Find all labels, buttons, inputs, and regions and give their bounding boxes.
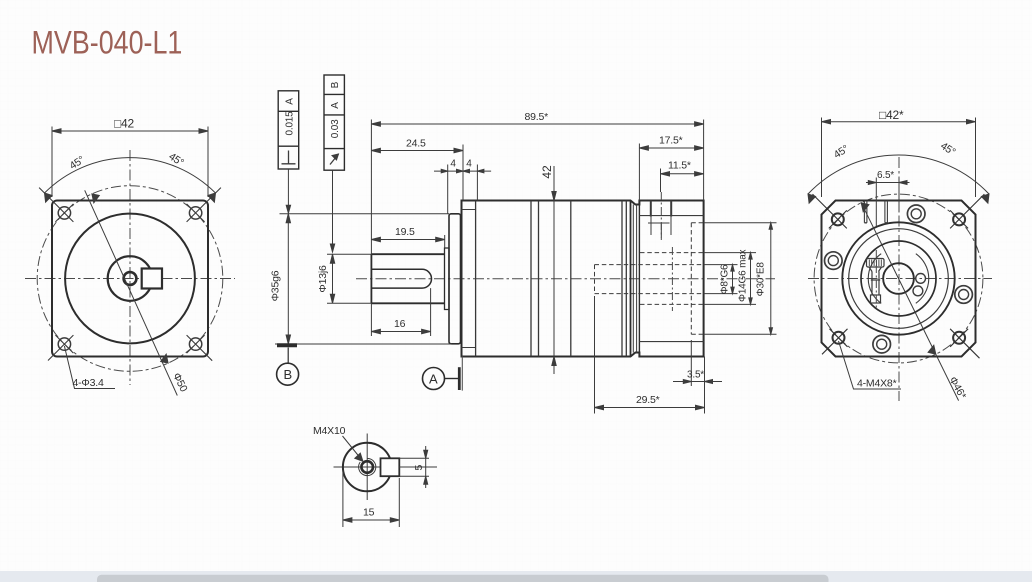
svg-text:□42: □42	[114, 117, 135, 131]
svg-text:16: 16	[394, 318, 406, 330]
tapped hole M4 section top	[648, 201, 671, 238]
small hole 2	[913, 286, 923, 296]
dim phi35g6	[275, 214, 452, 344]
front plate corner steps	[462, 210, 476, 348]
svg-text:Φ14G6 max: Φ14G6 max	[738, 249, 749, 302]
svg-text:B: B	[284, 367, 293, 382]
hole BR	[187, 335, 213, 361]
small hole 1	[916, 274, 926, 284]
hole TR	[187, 188, 221, 222]
housing body outline	[462, 201, 704, 357]
centerline horizontal	[25, 278, 235, 280]
svg-text:□42*: □42*	[879, 108, 904, 122]
angular dim arc 45deg	[45, 158, 216, 202]
key square	[142, 269, 162, 289]
svg-text:42: 42	[540, 165, 554, 179]
dimension square42	[52, 127, 208, 198]
dim 6.5	[866, 178, 910, 227]
shaft circle phi13	[108, 256, 153, 301]
clamp slot top	[864, 201, 887, 223]
svg-text:6.5*: 6.5*	[877, 170, 894, 181]
datum A	[423, 357, 463, 391]
svg-text:4-Φ3.4: 4-Φ3.4	[73, 377, 104, 389]
svg-text:Φ13j6: Φ13j6	[317, 265, 329, 293]
screw hole BL	[822, 329, 848, 355]
dim 15	[343, 470, 399, 527]
angular dim arc 45deg	[808, 155, 989, 203]
inner circle	[849, 229, 949, 329]
hole BL	[48, 335, 73, 360]
svg-text:11.5*: 11.5*	[668, 160, 691, 172]
thread arc	[359, 458, 376, 475]
motor hole left	[825, 252, 843, 270]
screw hole BR	[950, 329, 979, 358]
svg-text:A: A	[285, 98, 296, 105]
scrollbar track	[0, 571, 1032, 582]
neck joint lines	[633, 205, 636, 353]
dim 11.5	[661, 169, 704, 193]
datum B	[277, 345, 299, 385]
hole TL	[39, 188, 73, 222]
bolt circle phi50 dash-dot	[37, 186, 223, 372]
svg-text:4: 4	[450, 159, 456, 170]
coupling circle	[861, 241, 936, 316]
hub arcs	[868, 254, 929, 304]
tap hole M4	[361, 461, 373, 473]
hidden bore phi14	[640, 253, 704, 305]
square flange 42	[52, 201, 208, 357]
centerline horizontal	[808, 278, 992, 280]
pilot boss phi35	[449, 214, 461, 344]
dim phi8 G6	[704, 265, 738, 294]
body internal vertical lines	[476, 201, 627, 357]
hidden bore phi30	[691, 223, 703, 335]
dim phi30 E8	[704, 223, 777, 335]
label 4-phi3.4 leader	[64, 346, 115, 389]
pilot circle phi35	[65, 214, 195, 344]
shaft bore phi8	[883, 263, 914, 294]
svg-text:29.5*: 29.5*	[636, 394, 660, 406]
clamp screw detail	[867, 259, 885, 304]
screw hole TR	[950, 194, 984, 228]
dim 24.5	[371, 145, 463, 201]
label phi50 leader	[85, 190, 178, 395]
dim 5	[399, 446, 437, 488]
square flange chamfered	[822, 201, 976, 357]
centerline vertical	[898, 157, 900, 401]
tapped hole centerline	[660, 192, 662, 240]
shaft shoulder	[445, 248, 450, 310]
bolt circle phi46 dash-dot	[814, 194, 983, 363]
gdt frame runout	[324, 75, 344, 170]
svg-text:19.5: 19.5	[395, 226, 415, 238]
bore circle phi30	[842, 222, 954, 334]
label phi46 leader	[861, 202, 959, 400]
svg-text:MVB-040-L1: MVB-040-L1	[32, 25, 183, 61]
output shaft	[371, 254, 444, 303]
svg-text:89.5*: 89.5*	[525, 111, 549, 123]
keyway slot	[371, 269, 431, 288]
dim square 42	[822, 118, 976, 198]
motor hole top	[907, 205, 925, 223]
svg-text:Φ30*E8: Φ30*E8	[756, 262, 767, 297]
motor hole right	[955, 286, 973, 304]
screw hole TL	[813, 194, 847, 228]
dim 17.5	[639, 144, 703, 201]
svg-text:5: 5	[413, 465, 425, 471]
dim 4 4	[434, 165, 491, 214]
svg-text:4: 4	[466, 159, 472, 170]
centerline vertical	[366, 434, 368, 501]
dim 89.5	[371, 120, 703, 255]
dim 16	[371, 288, 430, 336]
coupling screw centerline vertical	[671, 247, 673, 311]
svg-text:0.015: 0.015	[285, 111, 296, 136]
adapter inner step lines	[639, 216, 703, 342]
centerline vertical	[129, 150, 131, 385]
centerline main axis	[356, 278, 775, 280]
svg-text:B: B	[330, 81, 341, 88]
label 4-M4X8 leader	[839, 341, 902, 389]
dim 42 vertical	[552, 166, 556, 374]
dim 19.5	[371, 235, 444, 248]
label M4X10 leader	[343, 436, 363, 461]
adapter face line	[638, 201, 640, 357]
key	[381, 458, 400, 476]
svg-text:M4X10: M4X10	[313, 425, 346, 437]
svg-text:17.5*: 17.5*	[659, 135, 683, 147]
hidden bore phi8	[595, 265, 704, 294]
centerline horizontal	[334, 466, 381, 468]
center tap hole	[124, 272, 137, 285]
svg-text:0.03: 0.03	[330, 119, 341, 138]
svg-text:24.5: 24.5	[406, 138, 426, 150]
gdt frame perpendicularity	[278, 91, 299, 169]
dim 3.5	[673, 340, 722, 414]
svg-text:4-M4X8*: 4-M4X8*	[857, 378, 897, 390]
svg-text:A: A	[330, 102, 341, 109]
svg-text:3.5*: 3.5*	[687, 370, 704, 381]
clamp screw centerline	[875, 250, 877, 310]
dim phi13j6	[327, 254, 371, 303]
shaft circle	[343, 443, 392, 492]
dim 29.5	[595, 296, 705, 414]
dim phi14 G6 max	[704, 253, 756, 305]
housing right face line	[630, 201, 632, 357]
scrollbar thumb	[97, 575, 829, 582]
svg-text:15: 15	[363, 507, 375, 519]
svg-text:A: A	[429, 371, 438, 386]
motor hole bottom	[873, 335, 891, 353]
svg-text:Φ35g6: Φ35g6	[269, 270, 281, 301]
svg-text:Φ8*G6: Φ8*G6	[720, 264, 731, 294]
